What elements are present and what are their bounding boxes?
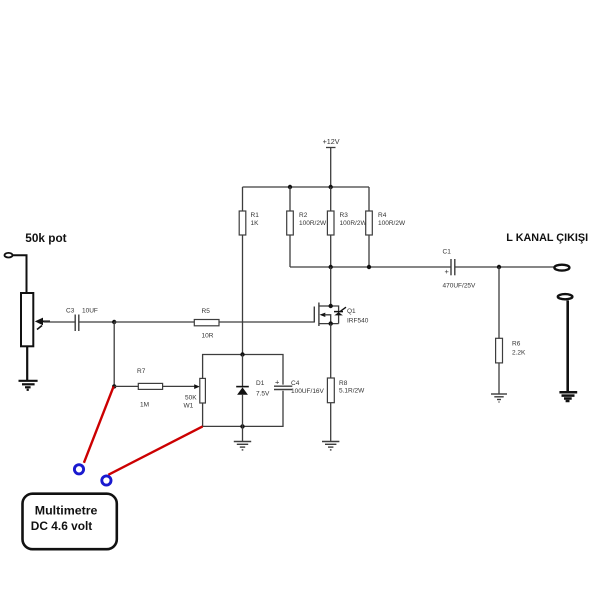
svg-text:R6: R6	[512, 341, 521, 348]
node junction R2 top	[288, 185, 292, 189]
svg-text:10R: 10R	[202, 333, 214, 340]
red probe wire 1	[84, 386, 114, 462]
svg-text:R5: R5	[202, 308, 211, 315]
svg-text:+: +	[275, 378, 280, 387]
wire output junction down to R6	[498, 267, 500, 338]
resistor R2	[287, 187, 327, 267]
trimmer potentiometer W1 body	[184, 378, 206, 409]
svg-text:R8: R8	[339, 380, 348, 387]
transistor Q1 IRF540	[314, 303, 368, 327]
capacitor C4	[274, 378, 325, 396]
node junction drain	[329, 304, 333, 308]
source bottom lead	[319, 323, 339, 325]
resistor R5	[194, 308, 219, 340]
output terminal ellipse 2	[558, 294, 573, 299]
svg-text:R2: R2	[299, 212, 308, 219]
node junction D1 top	[240, 352, 244, 356]
svg-text:+: +	[445, 267, 450, 276]
svg-text:L KANAL ÇIKIŞI: L KANAL ÇIKIŞI	[506, 232, 588, 244]
multimeter note box	[23, 494, 117, 550]
resistor R1	[239, 187, 259, 235]
wire terminal to pot	[13, 255, 27, 293]
red probe wire 2	[108, 426, 202, 474]
wire top rail	[243, 186, 370, 188]
svg-text:R3: R3	[340, 212, 349, 219]
potentiometer wiper arrow	[35, 318, 50, 330]
source middle lead with arrow	[320, 313, 326, 317]
body diode symbol	[334, 311, 343, 313]
ground (pot)	[19, 381, 38, 390]
ground (D1 box)	[234, 442, 251, 450]
capacitor C3	[66, 308, 98, 332]
svg-text:1K: 1K	[251, 220, 260, 227]
svg-text:100UF/16V: 100UF/16V	[291, 388, 325, 395]
wire trimmer bottom / box bottom rail	[203, 391, 283, 427]
output terminal ellipse 1	[554, 265, 569, 271]
wire D1 ground lead	[242, 426, 244, 441]
wire pot bottom	[26, 346, 28, 380]
wire output ground lead	[566, 301, 569, 392]
resistor R4	[366, 187, 406, 267]
svg-text:50k pot: 50k pot	[25, 231, 66, 245]
svg-text:R7: R7	[137, 368, 146, 375]
wire junction down to R7 node	[113, 322, 115, 386]
svg-text:1M: 1M	[140, 402, 149, 409]
svg-text:C3: C3	[66, 308, 75, 315]
wire C3 to junction	[79, 321, 114, 323]
svg-text:DC 4.6 volt: DC 4.6 volt	[31, 519, 92, 533]
svg-text:IRF540: IRF540	[347, 318, 369, 325]
power +12V	[323, 137, 340, 187]
potentiometer 50k body	[21, 293, 33, 346]
drain lead	[319, 305, 331, 307]
wire drain	[330, 267, 332, 306]
svg-text:470UF/25V: 470UF/25V	[443, 283, 477, 290]
svg-text:7.5V: 7.5V	[256, 391, 270, 398]
resistor R7	[137, 368, 163, 409]
node junction D1 bottom	[240, 424, 244, 428]
node junction C3/R5	[112, 320, 116, 324]
svg-text:100R/2W: 100R/2W	[378, 220, 406, 227]
wire to R7	[114, 385, 138, 387]
svg-text:D1: D1	[256, 380, 265, 387]
svg-text:+12V: +12V	[323, 137, 340, 146]
svg-text:C4: C4	[291, 380, 300, 387]
channel bar	[318, 303, 320, 327]
resistor R6	[496, 338, 526, 394]
svg-text:100R/2W: 100R/2W	[340, 220, 368, 227]
node junction source	[329, 321, 333, 325]
probe point 1 (blue)	[74, 465, 83, 474]
node junction R3 bottom / drain	[329, 265, 333, 269]
node junction R7 / probe	[112, 384, 116, 388]
pot input terminal	[5, 253, 13, 258]
wire trimmer top / box top rail	[203, 355, 283, 385]
resistor R8	[327, 378, 365, 442]
svg-text:100R/2W: 100R/2W	[299, 220, 327, 227]
ground (R6)	[491, 394, 507, 402]
node junction R6 top	[497, 265, 501, 269]
zener diode D1	[236, 355, 270, 427]
probe point 2 (blue)	[102, 476, 111, 485]
svg-text:R4: R4	[378, 212, 387, 219]
svg-text:5.1R/2W: 5.1R/2W	[339, 388, 365, 395]
ground R8	[322, 442, 339, 450]
capacitor C1	[443, 249, 477, 290]
wire C1 to output	[455, 266, 554, 268]
wire R5 to gate	[219, 321, 314, 323]
wire wiper to C3	[44, 321, 75, 323]
node junction +12V/R3 top	[329, 185, 333, 189]
svg-text:R1: R1	[251, 212, 260, 219]
svg-text:10UF: 10UF	[82, 308, 98, 315]
gate bar	[313, 307, 315, 323]
wire R1 bottom to D1 box (crosses gate wire, no dot)	[242, 235, 244, 355]
body diode branch	[331, 306, 339, 324]
trimmer wiper arrow	[194, 384, 200, 389]
wire bottom rail	[290, 266, 451, 268]
resistor R3	[327, 187, 367, 267]
svg-text:W1: W1	[184, 403, 194, 410]
svg-text:50K: 50K	[185, 395, 197, 402]
wire junction to R5	[114, 321, 194, 323]
ground (output, bold)	[559, 392, 577, 401]
wire R7 to trimmer	[163, 385, 195, 387]
svg-text:2.2K: 2.2K	[512, 350, 526, 357]
wire source down to R8	[330, 324, 332, 378]
svg-text:Q1: Q1	[347, 308, 356, 315]
node junction R4 bottom	[367, 265, 371, 269]
svg-text:C1: C1	[443, 249, 452, 256]
svg-text:Multimetre: Multimetre	[35, 503, 98, 517]
